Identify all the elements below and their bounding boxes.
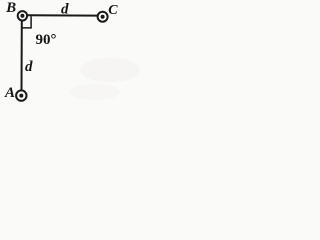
svg-text:C: C (108, 3, 118, 18)
svg-text:A: A (4, 85, 15, 101)
svg-text:B: B (5, 0, 16, 16)
svg-text:90°: 90° (36, 32, 57, 48)
svg-text:d: d (25, 59, 33, 75)
svg-text:d: d (61, 1, 69, 17)
